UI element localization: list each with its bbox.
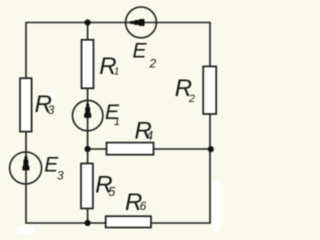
svg-text:3: 3 (48, 103, 55, 117)
svg-text:2: 2 (149, 57, 157, 71)
svg-text:1: 1 (114, 116, 120, 128)
svg-text:3: 3 (57, 169, 64, 183)
svg-text:4: 4 (146, 129, 153, 143)
svg-text:E: E (133, 40, 148, 63)
svg-text:2: 2 (188, 93, 195, 105)
svg-text:5: 5 (108, 185, 115, 199)
svg-text:1: 1 (114, 67, 120, 78)
svg-text:6: 6 (140, 199, 147, 213)
